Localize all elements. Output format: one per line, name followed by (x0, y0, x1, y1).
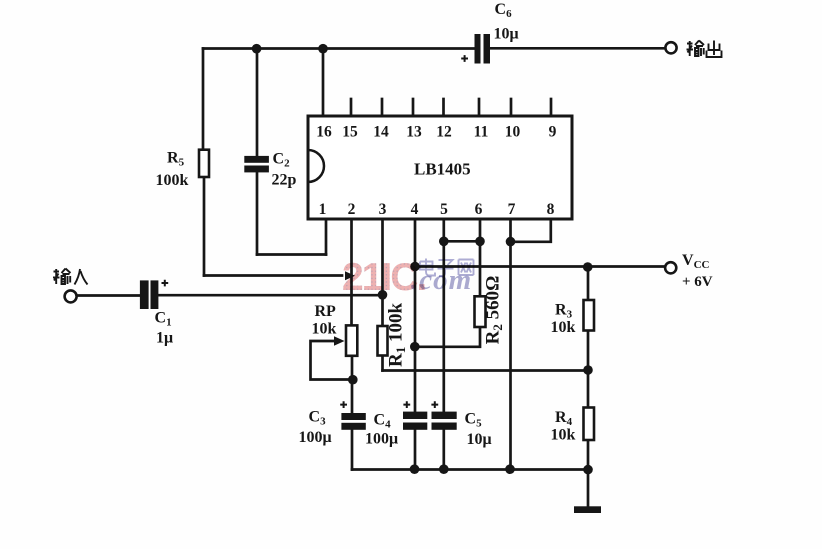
watermark 电子网 outline glyphs (420, 259, 474, 277)
wire pin10 top stub (510, 99, 513, 116)
capacitor C1 label (155, 310, 174, 347)
resistor R4 body (584, 408, 595, 441)
resistor R1 body (378, 326, 388, 356)
wire pin1 loop horizontal (257, 253, 326, 256)
svg-text:2: 2 (348, 201, 356, 218)
IC U1 LB1405 body (308, 116, 572, 219)
wire C1 to pin3 junction (159, 294, 383, 297)
resistor R4 label (551, 409, 576, 444)
wire C5 bottom to ground rail (442, 430, 445, 470)
potentiometer RP wiper arrow (334, 336, 345, 346)
wire left vertical to R5 top (202, 49, 205, 151)
svg-text:1: 1 (319, 201, 327, 218)
resistor R5 label (156, 150, 189, 190)
wire pin6 vertical to R2 (479, 219, 482, 296)
ground symbol (574, 506, 601, 513)
svg-text:14: 14 (373, 124, 389, 141)
wire R1 bottom vertical (381, 356, 384, 371)
wire pin3 vertical to R1 (381, 219, 384, 326)
svg-text:10μ: 10μ (467, 431, 492, 448)
wire Vcc line (415, 265, 665, 268)
wire bias node horizontal R1 to R3/R4 (383, 369, 589, 372)
svg-text:4: 4 (411, 201, 419, 218)
capacitor C3 plus (340, 401, 347, 408)
wire pin5 vertical to C5 (442, 219, 445, 412)
capacitor C5 plus (431, 401, 438, 408)
wire R2 bottom to pin4 line (415, 327, 480, 347)
wire input terminal to C1 (77, 294, 140, 297)
junction dot rail / C4 (410, 464, 420, 474)
wire R4 bottom to rail (587, 440, 590, 470)
wire pin16 to top rail (322, 49, 325, 117)
svg-text:R1 100k: R1 100k (386, 303, 409, 367)
svg-text:5: 5 (440, 201, 448, 218)
resistor R5 body (199, 150, 209, 177)
wire pin4 vertical to C4 (414, 219, 417, 412)
capacitor C2 label (272, 151, 297, 189)
wire pin7 vertical to ground rail (509, 219, 512, 470)
RP label (312, 303, 337, 338)
capacitor C5 plates (432, 412, 457, 430)
capacitor C6 plus (461, 55, 468, 62)
junction dot Vcc / pin4 (410, 262, 420, 272)
wire pin2 vertical to RP (350, 219, 353, 326)
wire pin9 top stub (550, 99, 553, 116)
Vcc terminal circle (665, 262, 676, 273)
resistor R2 body (475, 296, 486, 327)
wire C2 bottom vertical (256, 173, 259, 255)
capacitor C4 plus (403, 401, 410, 408)
capacitor C3 plates (341, 413, 365, 430)
wire pin11 top stub (478, 99, 481, 116)
capacitor C1 plus (162, 280, 169, 287)
junction dot pin5 tie (439, 237, 449, 247)
wire ground stub (587, 470, 590, 507)
svg-text:+ 6V: + 6V (682, 274, 713, 290)
svg-text:100μ: 100μ (365, 431, 398, 448)
junction dot input / pin3 / R1 (378, 290, 388, 300)
svg-text:11: 11 (474, 124, 489, 141)
capacitor C4 plates (403, 412, 427, 430)
wire pin8 stub and tie to pin7 (511, 219, 551, 242)
svg-text:10μ: 10μ (494, 26, 519, 43)
svg-text:10k: 10k (312, 321, 337, 338)
junction dot rail / pin7 (505, 464, 515, 474)
svg-text:9: 9 (549, 124, 557, 141)
svg-text:7: 7 (508, 201, 516, 218)
junction dot R2 bottom / pin4 line (410, 342, 420, 352)
junction dot top rail / C2 (252, 44, 262, 54)
label Vcc (682, 252, 713, 290)
capacitor C2 plates (244, 156, 269, 173)
wire ground rail (352, 468, 588, 471)
capacitor C3 label (299, 409, 332, 447)
wire C2 top vertical (256, 49, 259, 157)
svg-text:22p: 22p (272, 172, 297, 189)
junction dot rail / C5 (439, 464, 449, 474)
junction dot rail / R4 / ground (583, 465, 593, 475)
arrow from R5 into pin2 line (345, 271, 355, 280)
junction dot Vcc / R3 (583, 262, 593, 272)
wire Vcc to R3 top (587, 267, 590, 300)
capacitor C6 plates (475, 34, 491, 64)
capacitor C6 label (494, 1, 519, 43)
svg-text:15: 15 (342, 124, 358, 141)
junction dot bias node / R3 R4 (583, 365, 593, 375)
svg-text:10k: 10k (551, 427, 576, 444)
wire R5 bottom horizontal to pin2 line (204, 274, 342, 277)
wire pin14 top stub (381, 99, 384, 116)
junction dot top rail / pin16 (318, 44, 328, 54)
wire R5 bottom vertical (203, 177, 206, 276)
wire pin13 top stub (412, 99, 415, 116)
svg-text:13: 13 (406, 124, 422, 141)
svg-text:12: 12 (436, 124, 452, 141)
svg-text:1μ: 1μ (156, 330, 173, 347)
capacitor C5 label (465, 411, 492, 449)
svg-text:R2 560Ω: R2 560Ω (483, 276, 506, 345)
wire output line from C6 to output terminal (490, 47, 665, 50)
svg-text:100k: 100k (156, 172, 189, 189)
resistor R3 label (551, 302, 576, 337)
wire C4 bottom to ground rail (414, 430, 417, 470)
wire RP wiper loop (311, 341, 353, 380)
wire C3 bottom to ground rail (351, 430, 354, 470)
svg-text:6: 6 (475, 201, 483, 218)
svg-text:RP: RP (315, 303, 337, 320)
svg-text:8: 8 (547, 201, 555, 218)
svg-text:16: 16 (316, 124, 332, 141)
wire R3 bottom to R4 top (587, 331, 590, 408)
wire RP to C3 vertical (351, 356, 354, 413)
svg-text:.com: .com (411, 264, 472, 296)
junction dot pin7 tie (506, 237, 516, 247)
potentiometer RP body (346, 325, 357, 355)
svg-text:3: 3 (379, 201, 387, 218)
capacitor C4 label (365, 412, 398, 448)
wire pin15 top stub (350, 99, 353, 116)
svg-text:10: 10 (505, 124, 521, 141)
svg-text:100μ: 100μ (299, 429, 332, 446)
wire top supply rail (203, 47, 475, 50)
wire pin12 top stub (442, 99, 445, 116)
svg-text:10k: 10k (551, 319, 576, 336)
capacitor C1 plates (140, 280, 159, 309)
label 输入 (input) hand-drawn glyphs (53, 269, 88, 285)
label 输出 (output) hand-drawn glyphs (687, 41, 722, 58)
svg-text:LB1405: LB1405 (414, 160, 471, 179)
input terminal circle (65, 290, 77, 302)
junction dot pin6 tie (475, 237, 485, 247)
output terminal circle (665, 42, 676, 53)
wire pin1 vertical stub (325, 219, 328, 255)
wire pin5-pin6 tie (444, 240, 480, 243)
resistor R3 body (584, 300, 595, 331)
junction dot RP wiper bottom (348, 375, 358, 385)
